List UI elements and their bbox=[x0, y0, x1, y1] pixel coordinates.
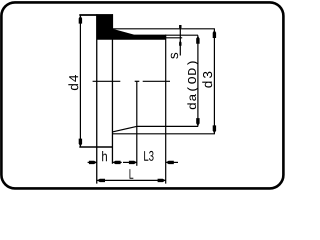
d3 arrow up bbox=[213, 30, 216, 38]
centerline dash 1 bbox=[93, 80, 121, 82]
L3 left extension line bbox=[136, 81, 138, 166]
collar right edge / h extension line bbox=[111, 14, 113, 164]
collar top edge + d4 extension line bbox=[79, 14, 113, 16]
pipe bore edge extension for s (top) bbox=[165, 37, 182, 39]
label h bbox=[102, 151, 107, 161]
h arrow pointing right bbox=[89, 161, 97, 164]
d4 arrow up bbox=[79, 16, 82, 24]
h arrow pointing left bbox=[113, 161, 121, 164]
d3 arrow down bbox=[213, 125, 216, 133]
bottom half: taper silhouette (outline view) bbox=[112, 126, 136, 131]
stub-end body section (collar, taper, pipe wall down to bore), filled bbox=[97, 14, 166, 39]
dimension line d3 bbox=[213, 29, 215, 134]
label s bbox=[171, 53, 178, 59]
border frame bbox=[1, 2, 283, 188]
dimension L3 left segment bbox=[123, 161, 137, 163]
da(OD) arrow down bbox=[196, 118, 199, 126]
s arrow upper pointing down bbox=[179, 25, 181, 30]
dimension line L bbox=[97, 179, 166, 181]
dimension h right segment bbox=[113, 161, 122, 163]
pipe outer surface extension to da(OD) (top) bbox=[165, 34, 198, 36]
centerline dash 3 bbox=[143, 80, 170, 82]
collar left edge / L extension line bbox=[96, 14, 98, 183]
label d3 bbox=[202, 72, 212, 88]
L arrow pointing left bbox=[97, 179, 105, 182]
da(OD) arrow up bbox=[196, 36, 199, 44]
label da(OD) bbox=[187, 61, 198, 109]
collar bottom edge + d4 extension line bbox=[79, 146, 113, 148]
L3 arrow pointing left bbox=[166, 161, 174, 164]
dimension line s bbox=[179, 25, 181, 55]
dimension h left segment bbox=[88, 161, 97, 163]
sealing face edge line + d3 extension (top) bbox=[112, 28, 215, 30]
bottom half: sealing face line + d3 extension bbox=[112, 133, 214, 135]
L arrow pointing right bbox=[158, 179, 166, 182]
pipe end face / L3-L extension line bbox=[165, 35, 167, 184]
dimension line d4 bbox=[79, 15, 81, 147]
centerline dash 2 bbox=[135, 80, 140, 82]
dimension L3 right segment bbox=[166, 161, 178, 163]
bottom half: pipe outer line + da(OD) extension bbox=[137, 125, 198, 127]
label L3 bbox=[144, 151, 153, 161]
label d4 bbox=[68, 75, 78, 90]
s arrow lower pointing up bbox=[179, 40, 181, 46]
dimension line da(OD) bbox=[197, 35, 199, 126]
d4 arrow down bbox=[79, 139, 82, 147]
L3 arrow pointing right bbox=[129, 161, 137, 164]
label L bbox=[130, 169, 134, 179]
